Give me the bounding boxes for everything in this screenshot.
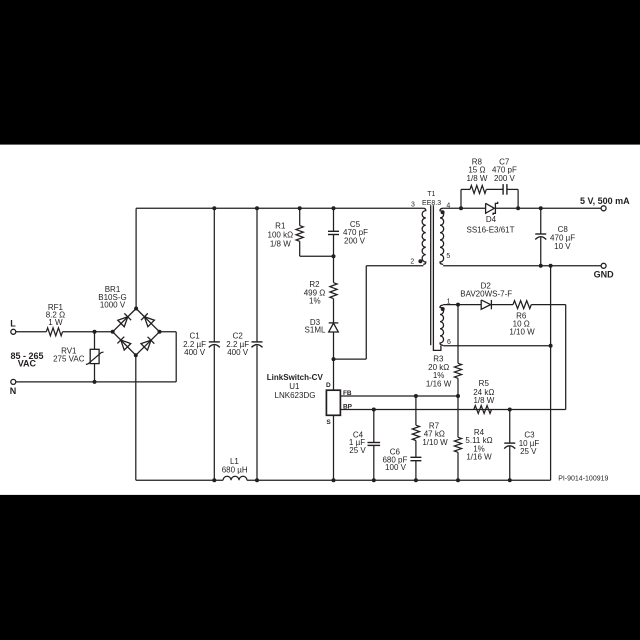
svg-text:400 V: 400 V bbox=[227, 348, 249, 357]
svg-text:R5: R5 bbox=[479, 379, 490, 388]
svg-text:1%: 1% bbox=[309, 296, 321, 305]
svg-text:100 kΩ: 100 kΩ bbox=[268, 231, 294, 240]
svg-text:5: 5 bbox=[446, 253, 450, 260]
svg-text:L: L bbox=[10, 318, 16, 328]
svg-text:GND: GND bbox=[594, 270, 615, 280]
svg-text:D4: D4 bbox=[486, 215, 497, 224]
svg-text:EE8.3: EE8.3 bbox=[422, 200, 441, 207]
svg-text:SS16-E3/61T: SS16-E3/61T bbox=[466, 226, 514, 235]
svg-text:1/10 W: 1/10 W bbox=[509, 328, 535, 337]
svg-text:2: 2 bbox=[410, 258, 414, 265]
svg-text:25 V: 25 V bbox=[349, 446, 366, 455]
svg-text:LinkSwitch-CV: LinkSwitch-CV bbox=[267, 373, 324, 382]
svg-text:1/8 W: 1/8 W bbox=[473, 396, 494, 405]
svg-text:VAC: VAC bbox=[18, 358, 37, 368]
svg-text:3: 3 bbox=[411, 202, 415, 209]
svg-text:1/10 W: 1/10 W bbox=[422, 438, 448, 447]
svg-text:FB: FB bbox=[343, 390, 352, 397]
svg-text:R2: R2 bbox=[309, 280, 320, 289]
svg-text:1 W: 1 W bbox=[48, 318, 63, 327]
svg-text:C2: C2 bbox=[233, 332, 244, 341]
svg-text:1: 1 bbox=[447, 299, 451, 306]
svg-text:BP: BP bbox=[343, 404, 353, 411]
svg-text:400 V: 400 V bbox=[184, 348, 206, 357]
svg-text:T1: T1 bbox=[427, 191, 435, 198]
svg-text:5 V, 500 mA: 5 V, 500 mA bbox=[580, 196, 630, 206]
svg-text:6: 6 bbox=[447, 339, 451, 346]
svg-text:S1ML: S1ML bbox=[305, 326, 326, 335]
svg-text:4: 4 bbox=[446, 203, 450, 210]
svg-text:S: S bbox=[326, 419, 331, 426]
svg-text:U1: U1 bbox=[289, 382, 300, 391]
svg-text:C1: C1 bbox=[189, 332, 200, 341]
svg-text:200 V: 200 V bbox=[344, 237, 366, 246]
svg-text:1/16 W: 1/16 W bbox=[426, 380, 452, 389]
svg-text:1/16 W: 1/16 W bbox=[466, 453, 492, 462]
svg-text:100 V: 100 V bbox=[385, 463, 407, 472]
svg-text:D: D bbox=[326, 382, 331, 389]
svg-text:275 VAC: 275 VAC bbox=[53, 355, 85, 364]
svg-text:1/8 W: 1/8 W bbox=[467, 174, 488, 183]
svg-text:1/8 W: 1/8 W bbox=[270, 240, 291, 249]
svg-text:10 V: 10 V bbox=[554, 242, 571, 251]
svg-text:R1: R1 bbox=[275, 222, 286, 231]
svg-text:LNK623DG: LNK623DG bbox=[275, 391, 316, 400]
svg-text:PI-9014-100919: PI-9014-100919 bbox=[558, 476, 608, 483]
svg-text:25 V: 25 V bbox=[520, 447, 537, 456]
svg-text:1000 V: 1000 V bbox=[100, 300, 126, 309]
svg-text:N: N bbox=[10, 386, 17, 396]
svg-text:BAV20WS-7-F: BAV20WS-7-F bbox=[460, 290, 512, 299]
svg-text:200 V: 200 V bbox=[494, 174, 516, 183]
svg-text:680 µH: 680 µH bbox=[222, 465, 248, 474]
